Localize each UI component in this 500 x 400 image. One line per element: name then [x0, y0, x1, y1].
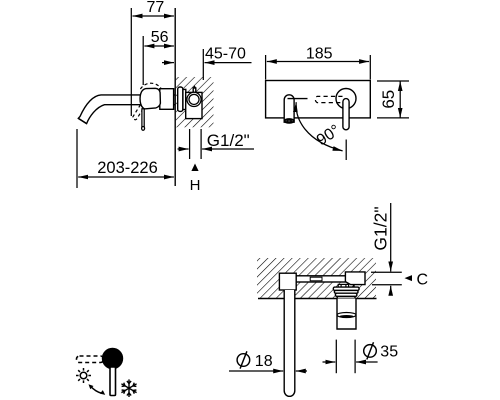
spout (side view) [78, 95, 175, 124]
escutcheon flange on wall [178, 87, 186, 111]
icon knob (black ball) [103, 349, 123, 369]
handle lever horizontal dashed (front view) [315, 96, 342, 102]
svg-text:203-226: 203-226 [97, 159, 158, 177]
handle knob (side view) [140, 88, 160, 109]
cartridge neck [338, 284, 354, 287]
svg-text:H: H [190, 177, 201, 194]
mounting plate [266, 81, 371, 118]
svg-text:G1/2": G1/2" [207, 131, 250, 150]
svg-text:35: 35 [380, 344, 398, 361]
svg-text:C: C [417, 272, 429, 289]
dimension 65 [377, 81, 409, 118]
cartridge flange discs [333, 287, 359, 298]
dimension diameter 35 [323, 340, 378, 374]
dimension 77 [131, 8, 174, 116]
svg-text:56: 56 [151, 29, 169, 46]
wall front face line [174, 8, 176, 186]
svg-text:G1/2": G1/2" [370, 206, 390, 250]
svg-text:18: 18 [255, 353, 273, 370]
handle dashed lever (open position) [132, 100, 147, 120]
icon swing arrow [89, 384, 106, 395]
concealed body: valve block [345, 272, 365, 285]
spout (front view) [284, 95, 294, 123]
handle lever vertical (front view) [343, 99, 349, 130]
icon sun (hot) [76, 368, 91, 383]
concealed valve body [186, 87, 202, 119]
handle body cylinder [160, 89, 174, 110]
svg-text:77: 77 [147, 0, 165, 16]
dimension diameter 18 [229, 370, 307, 372]
concealed body: spout base block [279, 273, 296, 290]
handle (bottom view) [337, 299, 356, 330]
90 degree swing arc [296, 102, 346, 160]
handle knob circle (front view) [336, 89, 356, 109]
dimension 203-226 [77, 129, 174, 188]
ceiling/wall hatching (bottom view) [257, 258, 376, 299]
svg-text:185: 185 [306, 46, 333, 63]
icon lever dashed horizontal [77, 356, 104, 363]
dimension C [371, 272, 402, 294]
svg-text:65: 65 [379, 90, 398, 109]
dimension 185 [266, 55, 371, 80]
leader G1/2" (bottom view) [390, 203, 392, 272]
spout tube (bottom view) [284, 290, 295, 396]
dimension 45-70 [162, 49, 252, 80]
icon lever vertical [110, 367, 116, 396]
dimension G1/2" (side view) [178, 129, 255, 159]
handle lever (vertical, closed position) [142, 109, 145, 130]
wall hatching (side view) [176, 77, 214, 127]
zero-position tick [288, 98, 308, 100]
icon snowflake (cold) [121, 379, 136, 397]
marker H [190, 164, 201, 195]
wall surface line [258, 298, 377, 300]
concealed body: connecting arm [296, 276, 346, 282]
valve cartridge circles [187, 92, 201, 106]
handle dashed knob circle (tilted position) [140, 83, 163, 106]
svg-text:45-70: 45-70 [205, 45, 246, 62]
dimension 56 [143, 36, 174, 85]
